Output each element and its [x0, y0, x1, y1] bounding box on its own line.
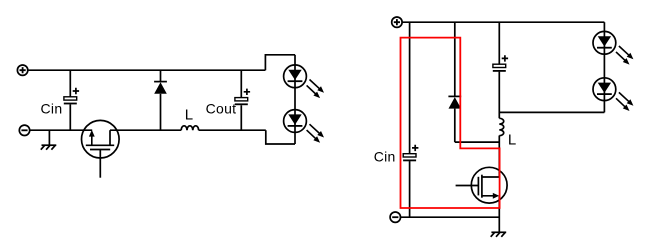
capacitor C output right [493, 64, 506, 72]
wire LED string column (left circuit) [294, 55, 296, 144]
svg-text:L: L [508, 132, 516, 149]
transistor Q1 MOSFET (left circuit) [82, 120, 120, 177]
wire bottom rail (right circuit) [401, 216, 500, 218]
capacitor Cin right [403, 154, 416, 162]
wire inductor to MOSFET drain [498, 136, 500, 178]
inductor L (right circuit) [499, 118, 503, 135]
capacitor Cout wires [240, 70, 242, 130]
wire LED return (right circuit) [499, 111, 604, 113]
terminal - input (left circuit) [19, 125, 29, 135]
wire LED branch bottom step [266, 130, 295, 144]
wire bottom rail left segment [30, 129, 92, 131]
ground (right circuit) [491, 232, 507, 237]
capacitor Cin wires [69, 70, 71, 130]
terminal + input (right circuit) [392, 17, 402, 27]
light arrows of D2 [307, 80, 324, 99]
wire bottom rail mid segment [110, 129, 181, 131]
wire LED branch top step [265, 55, 295, 70]
svg-text:Cin: Cin [374, 148, 396, 164]
current loop highlight (red) [401, 38, 500, 208]
inductor L (left circuit) [181, 126, 198, 130]
diode D1 (freewheel, left circuit) [154, 70, 167, 130]
wire top rail (left circuit) [28, 69, 266, 71]
terminal + input (left circuit) [17, 65, 27, 75]
svg-text:Cin: Cin [41, 100, 63, 116]
svg-text:L: L [185, 107, 193, 124]
wire top rail (right circuit) [402, 21, 604, 23]
wire bottom rail right segment [199, 129, 266, 131]
LED D6 [593, 78, 616, 101]
light arrows of D5 [616, 46, 633, 65]
capacitor C output wires (right circuit) [498, 22, 500, 118]
LED D2 [284, 65, 307, 88]
wire diode to inductor node [455, 141, 500, 143]
wire LED string column (right circuit) [603, 22, 605, 112]
polarity + of Cout [244, 89, 250, 95]
ground (left circuit) [41, 130, 57, 150]
light arrows of D3 [307, 124, 324, 143]
LED D3 [284, 110, 307, 133]
wire MOSFET source to ground [498, 196, 500, 232]
light arrows of D6 [616, 92, 633, 111]
transistor Q2 MOSFET (right circuit) [456, 167, 508, 203]
diode D4 (right circuit) [448, 22, 461, 142]
svg-text:Cout: Cout [206, 100, 237, 116]
polarity + of C output right [502, 55, 508, 61]
capacitor Cout [235, 98, 248, 106]
capacitor Cin [64, 97, 77, 105]
wire left rail (right circuit) [409, 22, 411, 217]
polarity + of Cin right [412, 145, 418, 151]
LED D5 [593, 31, 616, 54]
terminal - input (right circuit) [390, 212, 400, 222]
polarity + of Cin [73, 88, 79, 94]
